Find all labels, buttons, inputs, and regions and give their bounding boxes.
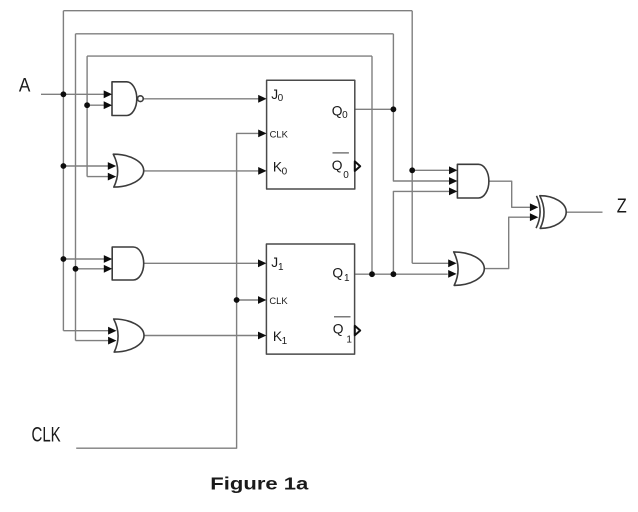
arrowhead FF1 J1 input (258, 259, 266, 267)
pin label FF1 Qbar1 overline (334, 316, 351, 318)
xor-gate G7 front arc (536, 196, 540, 228)
and-gate G5 body (457, 164, 488, 198)
svg-text:0: 0 (342, 110, 348, 121)
wire net-A stub into AND3 input 1 (412, 169, 449, 171)
svg-text:1: 1 (278, 262, 284, 273)
wire net-Q1 left vertical (86, 56, 88, 177)
svg-text:Q: Q (332, 265, 343, 280)
nand-gate G1 body (112, 82, 137, 116)
wire XOR output to Z (566, 211, 602, 213)
wire net-Q0 top feedback horizontal (76, 33, 394, 35)
svg-text:0: 0 (282, 167, 288, 178)
wire OR1 output to FF0 K0 (144, 170, 259, 172)
wire OR2 output to FF1 K1 (144, 335, 259, 337)
svg-text:0: 0 (343, 170, 349, 181)
svg-text:CLK: CLK (32, 424, 61, 447)
wire net-A stub into AND2 input 1 (63, 258, 104, 260)
wire net-Q0 output of FF0 (355, 108, 394, 110)
arrowhead OR2 input 2 (108, 337, 116, 345)
junction dot net-Q0 at FF0 output (391, 106, 397, 112)
wire net-Q0 left vertical (75, 34, 77, 341)
junction dot net-Q1 at FF1 output (369, 271, 375, 277)
arrowhead FF1 CLK input (258, 296, 266, 304)
arrowhead NAND1 input 2 (104, 101, 112, 109)
arrowhead AND2 input 2 (104, 265, 112, 273)
wire net-A stub into OR2 input 1 (63, 330, 108, 332)
pin chevron FF0 Qbar0 (355, 161, 360, 171)
arrowhead OR1 input 2 (108, 173, 116, 181)
arrowhead OR2 input 1 (108, 327, 116, 335)
arrowhead FF1 K1 input (258, 332, 266, 340)
wire net-Q1 right vertical up (371, 56, 373, 274)
wire net-A stub into OR3 input 1 (412, 262, 448, 264)
arrowhead NAND1 input 1 (104, 90, 112, 98)
wire net-Q0 branch into AND3 input 2 (393, 109, 449, 181)
arrowhead OR1 input 1 (108, 162, 116, 170)
junction dot net-Q0 at AND2 input 2 (73, 266, 79, 272)
svg-text:Figure 1a: Figure 1a (210, 474, 309, 494)
wire CLK trunk to FF0 CLK (76, 133, 259, 448)
wire net-A right vertical (411, 11, 413, 264)
arrowhead FF0 J0 input (258, 95, 266, 103)
svg-text:1: 1 (346, 335, 352, 346)
nand-gate G1 bubble (138, 96, 144, 102)
wire AND3 output to XOR input 1 (489, 181, 530, 207)
wire OR3 output to XOR input 2 (484, 217, 530, 268)
junction dot CLK branch (234, 297, 240, 303)
svg-text:Q: Q (332, 158, 343, 173)
wire net-Q1 branch into AND3 input 3 (393, 191, 449, 274)
arrowhead AND3 input 1 (449, 166, 457, 174)
and-gate G3 body (112, 247, 144, 280)
arrowhead AND3 input 2 (449, 177, 457, 185)
arrowhead AND2 input 1 (104, 255, 112, 263)
wire net-Q1 stub into NAND1 input 2 (87, 104, 104, 106)
wire net-A stub into OR1 input 1 (63, 165, 108, 167)
wire net-Q0 stub into OR2 input 2 (76, 340, 109, 342)
arrowhead OR3 input 1 (448, 259, 456, 267)
svg-text:1: 1 (344, 273, 350, 284)
wire net-A input segment from label A (41, 93, 104, 95)
wire net-Q1 stub into OR1 input 2 (87, 176, 108, 178)
flip-flop FF1 box (266, 244, 354, 354)
junction dot net-Q1 at NAND1 input 2 (84, 102, 90, 108)
wire AND2 output to FF1 J1 (144, 262, 259, 264)
arrowhead FF0 CLK input (258, 130, 266, 138)
wire net-Q1 output of FF1 (355, 273, 448, 275)
arrowhead XOR input 2 (530, 213, 538, 221)
junction dot net-A at OR1 input 1 (61, 163, 67, 169)
wire net-A left vertical (62, 11, 64, 331)
or-gate G4 body (114, 319, 144, 352)
wire net-A top feedback horizontal (63, 10, 412, 12)
pin chevron FF1 Qbar1 (355, 326, 360, 336)
wire net-Q0 right vertical up (392, 34, 394, 110)
flip-flop FF0 box (267, 80, 355, 189)
junction dot net-A at AND2 input 1 (61, 256, 67, 262)
arrowhead XOR input 1 (530, 203, 538, 211)
arrowhead FF0 K0 input (258, 167, 266, 175)
arrowhead OR3 input 2 (448, 270, 456, 278)
svg-text:Q: Q (333, 321, 344, 336)
wire net-Q1 top feedback horizontal (87, 55, 372, 57)
arrowhead AND3 input 3 (449, 188, 457, 196)
wire CLK branch to FF1 CLK (237, 299, 259, 301)
junction dot net-A at AND3 input 1 (409, 167, 415, 173)
or-gate G2 body (113, 154, 143, 187)
pin label FF0 Qbar0 overline (333, 152, 349, 154)
junction dot net-Q1 at FF1 output 2 (391, 271, 397, 277)
svg-text:0: 0 (278, 93, 284, 104)
svg-text:Z: Z (617, 195, 627, 218)
xor-gate G7 body (540, 196, 566, 229)
wire net-Q0 stub into AND2 input 2 (76, 268, 105, 270)
junction dot net-A at A wire (61, 91, 67, 97)
svg-text:A: A (19, 75, 31, 97)
svg-text:CLK: CLK (269, 295, 288, 306)
wire NAND1 output to FF0 J0 (144, 98, 259, 100)
svg-text:CLK: CLK (270, 129, 289, 140)
or-gate G6 body (454, 252, 485, 286)
svg-text:1: 1 (282, 336, 288, 347)
